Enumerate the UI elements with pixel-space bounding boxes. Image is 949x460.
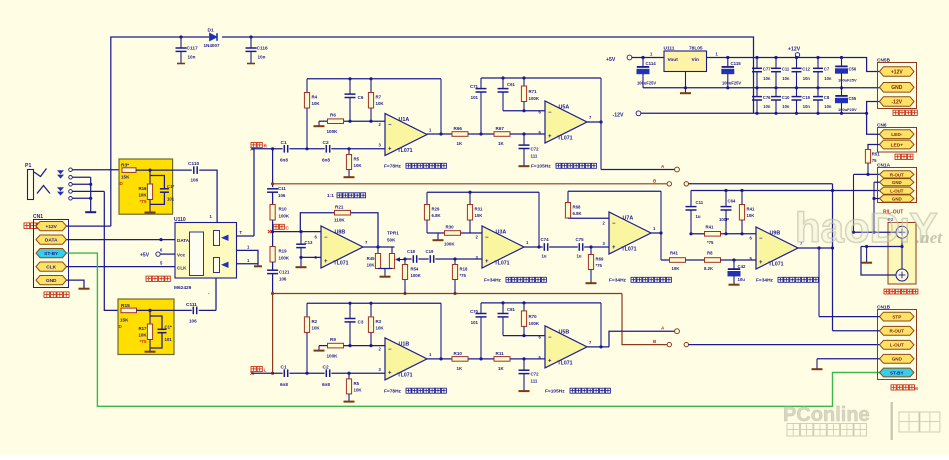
- svg-text:1u: 1u: [542, 254, 547, 259]
- wire R3 to C110: [136, 169, 192, 172]
- capacitor C18: [407, 249, 417, 263]
- connector CN5B box: [877, 57, 917, 108]
- wire R15 to C111: [137, 309, 192, 312]
- U110 pin names: [160, 238, 190, 271]
- wire U3A feedback right: [538, 192, 540, 247]
- svg-text:101: 101: [167, 197, 175, 202]
- capacitor C11c: [686, 191, 704, 234]
- svg-text:TL071: TL071: [558, 136, 573, 142]
- svg-text:10n: 10n: [803, 104, 811, 109]
- wire C75 to U7A plus: [584, 245, 609, 248]
- wire LED+ to R51: [868, 145, 880, 150]
- svg-text:100K: 100K: [411, 273, 422, 278]
- svg-text:*T5: *T5: [140, 199, 147, 204]
- label U110 M62429: [174, 285, 192, 291]
- resistor R5b: [346, 373, 362, 401]
- wire mid column b: [271, 220, 274, 247]
- svg-text:R11: R11: [496, 351, 505, 356]
- capacitor C118: [267, 186, 286, 198]
- svg-text:10K: 10K: [354, 388, 363, 393]
- svg-text:C11: C11: [696, 200, 704, 205]
- U110 pot element 2: [214, 258, 229, 273]
- svg-text:U1A: U1A: [399, 117, 410, 123]
- label filter4 caption: [609, 277, 671, 283]
- wire mid column a: [271, 182, 274, 204]
- svg-text:8.2K: 8.2K: [704, 266, 714, 271]
- svg-text:C19: C19: [426, 249, 434, 254]
- svg-text:C111: C111: [186, 302, 197, 308]
- resistor R15: [119, 303, 137, 329]
- node B bottom: [653, 339, 689, 347]
- wire U8B output: [363, 245, 395, 248]
- wire U8B plus input: [299, 256, 321, 267]
- wire U110 T riser to signal R: [253, 149, 255, 236]
- wire +12V rail: [729, 56, 880, 72]
- svg-text:+: +: [548, 134, 552, 140]
- wire R11 to U5B plus: [510, 357, 545, 360]
- wire B top to CN1B R-OUT: [689, 183, 833, 185]
- ground jack: [85, 211, 96, 213]
- svg-text:C117: C117: [187, 46, 199, 52]
- wire R67 to U5A plus: [510, 132, 545, 135]
- wire U1A feedback top: [307, 77, 441, 80]
- wire U1B feedback top: [307, 302, 441, 305]
- svg-text:10K: 10K: [312, 326, 321, 331]
- svg-text:100K: 100K: [444, 242, 455, 247]
- svg-text:110K: 110K: [334, 218, 345, 223]
- connector CN6 box: [877, 122, 917, 152]
- svg-text:10n: 10n: [824, 76, 832, 81]
- wire U1B output: [427, 303, 452, 360]
- pin CN1 CLK: [36, 262, 67, 271]
- resistor R67: [494, 126, 510, 146]
- svg-text:100uF25V: 100uF25V: [838, 107, 857, 112]
- junction: [249, 35, 252, 38]
- svg-text:10n: 10n: [803, 76, 811, 81]
- pin CN1 GND: [36, 276, 67, 285]
- svg-text:−: −: [759, 236, 763, 242]
- junction: [179, 35, 182, 38]
- svg-text:GND: GND: [46, 278, 57, 284]
- svg-text:10K: 10K: [138, 193, 147, 198]
- svg-text:10n: 10n: [258, 55, 266, 60]
- svg-text:M: M: [914, 386, 918, 391]
- svg-text:101: 101: [471, 320, 479, 325]
- wire signal R: [252, 147, 386, 150]
- svg-text:C114: C114: [646, 61, 657, 66]
- wire mid column upper: [272, 149, 274, 187]
- svg-text:6n8: 6n8: [280, 382, 288, 387]
- wire U110 out T: [237, 230, 255, 236]
- ground regulator: [680, 72, 691, 94]
- op-amp U3A: [476, 226, 530, 268]
- capacitor C3: [345, 303, 364, 345]
- label filter3 caption: [484, 277, 546, 283]
- wire P2 loop: [861, 247, 896, 276]
- svg-text:C1: C1: [281, 140, 287, 146]
- svg-text:ST-BY: ST-BY: [44, 251, 59, 257]
- svg-text:10n: 10n: [782, 76, 790, 81]
- svg-text:+5V: +5V: [140, 252, 150, 258]
- svg-text:C10: C10: [782, 95, 790, 100]
- svg-text:TPR1: TPR1: [387, 231, 399, 236]
- capacitor C13: [296, 232, 313, 258]
- capacitor C7: [813, 58, 832, 88]
- wire signal L: [252, 372, 386, 375]
- svg-text:R54: R54: [411, 267, 419, 272]
- svg-text:C76: C76: [763, 95, 771, 100]
- svg-text:111: 111: [531, 378, 538, 383]
- wire jack contact 5: [72, 197, 90, 199]
- resistor R18: [452, 259, 468, 294]
- svg-text:R67: R67: [496, 126, 505, 131]
- svg-text:10K: 10K: [138, 333, 147, 338]
- svg-text:C81: C81: [507, 307, 515, 312]
- op-amp U7A: [603, 212, 657, 254]
- svg-text:PConline: PConline: [783, 404, 870, 426]
- svg-text:10n: 10n: [763, 76, 771, 81]
- svg-text:R19: R19: [279, 249, 288, 254]
- capacitor C11: [771, 58, 790, 88]
- pin CN5B -12V: [880, 97, 915, 107]
- svg-text:R5: R5: [354, 381, 360, 386]
- svg-text:R10: R10: [454, 351, 463, 356]
- ground TPR1: [380, 276, 391, 278]
- wire U7A feedback right: [659, 191, 662, 260]
- svg-text:R71: R71: [529, 89, 538, 94]
- svg-text:101: 101: [165, 337, 173, 342]
- svg-text:15K: 15K: [120, 318, 129, 323]
- capacitor C76: [752, 88, 771, 114]
- pin CN1A R-OUT: [880, 171, 915, 178]
- svg-text:R15: R15: [121, 303, 130, 309]
- capacitor C114 electrolytic: [637, 58, 657, 88]
- ground P2: [861, 247, 872, 263]
- svg-text:106: 106: [191, 178, 199, 183]
- wire U1A output: [427, 79, 452, 136]
- capacitor C2b: [322, 364, 330, 387]
- capacitor C1b: [280, 364, 288, 387]
- wire U5A minus input: [503, 109, 545, 112]
- svg-text:C116: C116: [257, 46, 269, 52]
- pin CN1 +12V: [36, 222, 67, 231]
- capacitor C12: [792, 58, 811, 88]
- svg-text:10n: 10n: [188, 55, 196, 60]
- resistor R69: [588, 247, 604, 283]
- svg-text:DATA: DATA: [177, 238, 190, 243]
- capacitor C2: [322, 140, 330, 163]
- svg-text:−: −: [548, 110, 552, 116]
- svg-text:+: +: [388, 371, 392, 377]
- capacitor C15: [150, 316, 172, 348]
- svg-text:C2: C2: [323, 364, 329, 370]
- svg-text:R5: R5: [354, 157, 360, 162]
- svg-text:R41: R41: [670, 251, 678, 256]
- svg-text:Vout: Vout: [668, 57, 679, 63]
- wire U5B feedback top: [481, 301, 601, 304]
- resistor R41a: [661, 251, 686, 271]
- svg-text:10n: 10n: [824, 104, 832, 109]
- resistor R6: [327, 113, 344, 135]
- diode D1: [204, 28, 221, 49]
- svg-text:C2: C2: [323, 140, 329, 146]
- wire U7A minus input: [568, 217, 609, 219]
- svg-text:M62429: M62429: [174, 285, 192, 291]
- trimmer TPR1: [387, 231, 405, 269]
- svg-text:R70: R70: [529, 314, 538, 319]
- svg-text:C55: C55: [849, 96, 857, 101]
- svg-text:-12V: -12V: [892, 99, 903, 105]
- svg-text:C11: C11: [782, 67, 790, 72]
- svg-text:C1*: C1*: [165, 325, 172, 330]
- wire jack contact 2: [72, 176, 90, 178]
- svg-text:100P: 100P: [719, 217, 729, 222]
- svg-text:+12V: +12V: [788, 47, 801, 53]
- svg-text:C11: C11: [278, 186, 286, 191]
- capacitor C6: [345, 79, 364, 121]
- svg-text:15K: 15K: [121, 175, 130, 180]
- P2 pot 1: [896, 226, 908, 238]
- op-amp U5B: [539, 326, 593, 368]
- wire jack contact 4: [72, 190, 104, 192]
- pin CN1A L-OUT: [880, 187, 915, 194]
- capacitor C19: [792, 88, 811, 114]
- pin CN1B STP: [880, 312, 915, 321]
- svg-text:C110: C110: [188, 161, 200, 167]
- svg-text:111: 111: [531, 154, 538, 159]
- wire jack L to R15 box: [104, 191, 119, 310]
- resistor R4: [304, 79, 320, 149]
- svg-text:100K: 100K: [529, 321, 540, 326]
- wire -12V rail to pin: [867, 102, 880, 114]
- resistor R30: [444, 225, 461, 247]
- svg-text:L-OUT: L-OUT: [890, 189, 904, 194]
- label filter1 caption: [384, 163, 446, 169]
- svg-text:F=78Hz: F=78Hz: [384, 164, 402, 170]
- capacitor C77: [752, 58, 771, 88]
- svg-text:P1: P1: [25, 163, 31, 169]
- svg-text:R30: R30: [446, 225, 455, 230]
- pin CN1B ST-BY: [880, 368, 915, 377]
- wire CN1A GND pins: [872, 182, 879, 234]
- svg-text:−: −: [388, 347, 392, 353]
- wire -12V top loop left: [111, 37, 209, 226]
- svg-text:C19: C19: [802, 95, 810, 100]
- svg-text:10K: 10K: [747, 213, 756, 218]
- svg-text:C64: C64: [728, 199, 736, 204]
- ground R69: [586, 282, 597, 284]
- wire U5B output: [587, 303, 609, 349]
- wire jack tip to R3 box: [72, 169, 122, 171]
- svg-text:1:1: 1:1: [327, 193, 334, 199]
- wire U3A plus input: [403, 257, 482, 260]
- resistor R2: [304, 303, 320, 373]
- svg-text:TL071: TL071: [398, 372, 413, 378]
- svg-text:R66: R66: [454, 126, 463, 131]
- svg-text:R45: R45: [367, 256, 375, 261]
- svg-text:C18: C18: [407, 249, 415, 254]
- wire P2 internal: [901, 238, 903, 269]
- svg-text:6n8: 6n8: [322, 382, 330, 387]
- U110 pot element 1: [214, 231, 229, 246]
- resistor R10h: [452, 351, 468, 371]
- label jack input cjk: [24, 223, 49, 229]
- svg-text:STP: STP: [892, 315, 901, 320]
- svg-text:+12V: +12V: [891, 69, 903, 75]
- svg-text:−: −: [388, 123, 392, 129]
- wire U9B minus input: [689, 232, 756, 235]
- wire -12V to LED-: [867, 113, 880, 134]
- svg-text:R51: R51: [872, 152, 880, 157]
- svg-text:C70: C70: [470, 309, 479, 314]
- wire CN1 +12V: [67, 225, 111, 227]
- label R/L-OUT: [883, 210, 903, 216]
- connector CN1A box: [877, 162, 917, 202]
- node B top: [653, 178, 689, 186]
- resistor R16: [138, 170, 152, 212]
- svg-text:TL071: TL071: [398, 148, 413, 154]
- label led cjk: [895, 154, 913, 159]
- capacitor C1: [280, 140, 288, 163]
- svg-text:10K: 10K: [367, 263, 376, 268]
- capacitor C115 electrolytic: [722, 56, 742, 88]
- connector CN1 box: [33, 214, 69, 288]
- capacitor C116: [246, 37, 269, 64]
- svg-text:TL071: TL071: [622, 247, 637, 253]
- wire ST-BY green: [67, 253, 880, 406]
- resistor R45: [367, 247, 381, 269]
- svg-text:TL071: TL071: [495, 261, 510, 267]
- resistor R7: [368, 79, 384, 121]
- resistor R3: [368, 303, 384, 345]
- pin CN1A GND2: [880, 195, 915, 202]
- svg-text:R6: R6: [330, 113, 336, 118]
- capacitor C72: [519, 134, 540, 166]
- wire CN1A R-OUT drop: [853, 174, 855, 232]
- svg-text:R2: R2: [312, 319, 318, 324]
- wire R45 TPR1 bottoms: [378, 269, 392, 277]
- ground C42: [729, 284, 740, 286]
- svg-text:−: −: [612, 221, 616, 227]
- capacitor C121: [267, 270, 290, 282]
- ground R9: [314, 350, 325, 352]
- svg-text:R3*: R3*: [121, 163, 129, 169]
- pin CN1A GND1: [880, 179, 915, 186]
- svg-text:+: +: [485, 259, 489, 265]
- svg-text:C3: C3: [358, 319, 364, 324]
- svg-text:R-OUT: R-OUT: [890, 172, 904, 177]
- wire regulator Vin: [707, 52, 730, 58]
- svg-text:F=34Hz: F=34Hz: [484, 278, 502, 284]
- svg-text:C71: C71: [470, 84, 479, 89]
- svg-text:U3A: U3A: [496, 230, 507, 236]
- pin CN1B L-OUT: [880, 340, 915, 349]
- svg-text:C13: C13: [305, 240, 313, 245]
- svg-text:10K: 10K: [376, 326, 385, 331]
- wire CN1 GND: [67, 280, 85, 288]
- resistor R21: [334, 205, 351, 223]
- svg-text:106: 106: [278, 193, 286, 198]
- capacitor C10: [771, 88, 790, 114]
- svg-text:1K: 1K: [457, 366, 463, 371]
- watermark haoDIY: [795, 204, 943, 251]
- resistor R41v: [739, 191, 755, 234]
- svg-text:100K: 100K: [279, 214, 290, 219]
- wire mid column red drop: [271, 294, 274, 375]
- svg-text:−: −: [485, 235, 489, 241]
- svg-text:C77: C77: [763, 67, 771, 72]
- resistor R3: [120, 163, 137, 187]
- capacitor C70: [470, 303, 487, 361]
- svg-text:-12V: -12V: [613, 112, 624, 118]
- svg-text:+: +: [548, 359, 552, 365]
- svg-text:C61: C61: [507, 82, 515, 87]
- op-amp U1A: [379, 114, 433, 156]
- capacitor C117: [176, 37, 199, 64]
- wire red bus top: [273, 183, 667, 185]
- svg-text:*75: *75: [460, 273, 467, 278]
- svg-text:C115: C115: [731, 61, 742, 66]
- svg-text:C8: C8: [824, 95, 830, 100]
- highlight box R15/R17: [118, 299, 174, 355]
- wire C111 to U110: [199, 309, 216, 311]
- ground R17: [145, 351, 156, 353]
- svg-text:*75: *75: [707, 240, 714, 245]
- capacitor C71: [470, 78, 487, 136]
- svg-text:100uF25V: 100uF25V: [838, 78, 857, 83]
- svg-text:TL071: TL071: [769, 262, 784, 268]
- pin CN1 DATA: [36, 235, 67, 244]
- ground R16: [145, 212, 156, 214]
- svg-text:−: −: [548, 335, 552, 341]
- label filter5 caption: [756, 277, 818, 283]
- wire R51 to R-OUT: [854, 173, 880, 176]
- svg-text:C56: C56: [849, 67, 857, 72]
- wire mid column d: [271, 274, 274, 296]
- capacitor C75: [576, 237, 585, 259]
- svg-text:10n: 10n: [782, 104, 790, 109]
- svg-text:F=34Hz: F=34Hz: [756, 278, 774, 284]
- wire jack ground stem: [89, 177, 92, 211]
- svg-text:10n: 10n: [763, 104, 771, 109]
- ground U8B plus: [296, 266, 307, 268]
- svg-text:10K: 10K: [312, 101, 321, 106]
- node signal C: [268, 224, 290, 233]
- svg-text:100uF25V: 100uF25V: [637, 81, 656, 86]
- svg-text:100K: 100K: [327, 353, 339, 358]
- ground R6: [314, 125, 325, 127]
- label -12V rail: [613, 111, 641, 118]
- P2 pot 2: [896, 269, 908, 281]
- svg-text:+5V: +5V: [606, 57, 616, 63]
- svg-text:C12: C12: [802, 67, 810, 72]
- pin CN1B GND: [880, 354, 915, 363]
- svg-text:D1: D1: [208, 28, 214, 34]
- svg-text:R7: R7: [376, 95, 382, 100]
- svg-text:6n8: 6n8: [322, 158, 330, 163]
- resistor R19v: [270, 247, 290, 263]
- svg-text:U5A: U5A: [559, 105, 570, 111]
- svg-text:+12V: +12V: [46, 224, 58, 230]
- wire B bottom to CN1B L-OUT: [689, 344, 880, 346]
- svg-text:CLK: CLK: [46, 265, 56, 271]
- svg-text:TL071: TL071: [334, 261, 349, 267]
- wire U110 pins 1: [237, 245, 263, 267]
- wire P2 mid: [861, 245, 904, 248]
- resistor R51: [865, 150, 880, 175]
- resistor R54: [402, 259, 421, 294]
- wire -12V rail: [641, 112, 868, 115]
